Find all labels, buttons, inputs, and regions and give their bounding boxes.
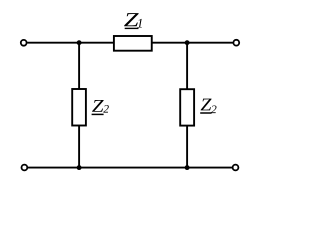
terminal top-right [233,40,239,46]
wire top rail right segment [152,42,233,44]
wire left vertical bottom [78,126,80,168]
node left junction bottom [77,165,82,170]
wire bottom rail [28,167,232,169]
resistor Z2 (right) [180,89,194,125]
terminal top-left [21,40,27,46]
terminal bottom-right [233,165,239,171]
wire right vertical top [186,43,188,89]
label Z2 right [200,99,216,113]
wire left vertical top [78,43,80,89]
label Z1 [124,13,142,28]
resistor Z1 [114,36,152,51]
node right junction bottom [185,165,190,170]
wire right vertical bottom [186,126,188,168]
node left junction top [77,40,82,45]
terminal bottom-left [22,165,28,171]
label Z2 left [92,100,109,114]
node right junction top [185,40,190,45]
wire top rail left segment [27,42,114,44]
resistor Z2 (left) [72,89,86,126]
